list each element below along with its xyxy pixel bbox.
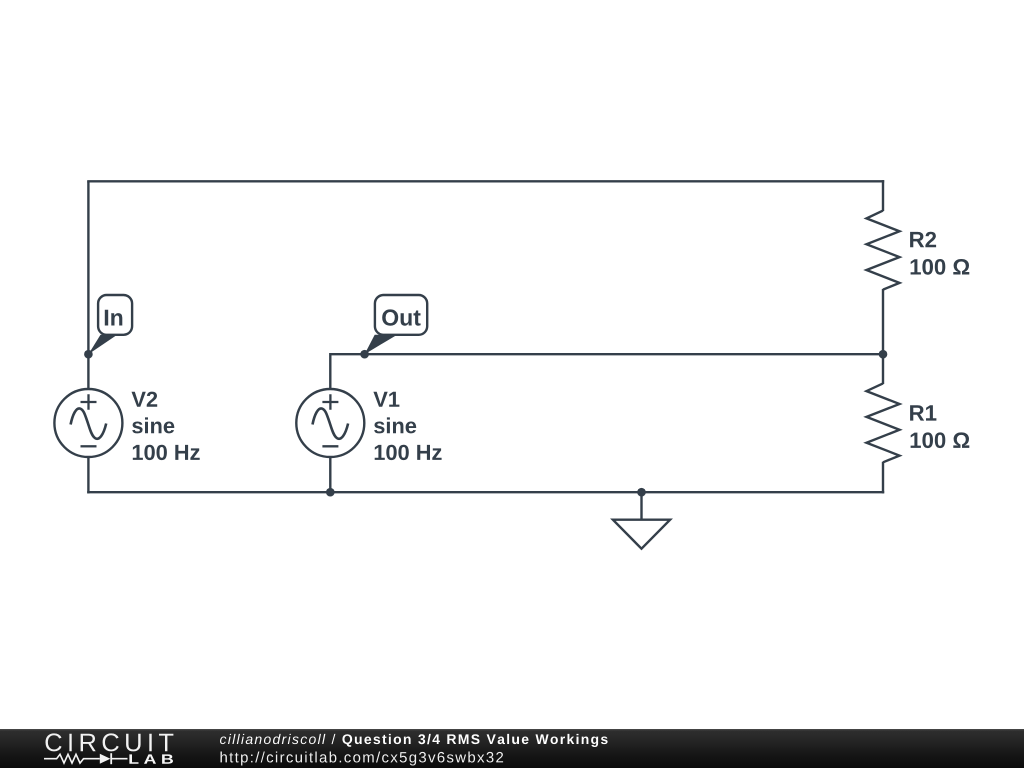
wire R2 top lead (882, 180, 884, 211)
wire R2 bottom lead (882, 289, 884, 355)
wire Out rail (330, 353, 883, 355)
label R2 value (910, 232, 969, 275)
voltage source V2 (54, 389, 122, 457)
ground (613, 492, 670, 549)
logo LAB word (129, 754, 173, 763)
wire R1 bottom lead (882, 462, 884, 494)
junction dot ground (637, 488, 646, 497)
node In text (105, 310, 123, 326)
wire V2 bottom lead (87, 456, 89, 493)
label V1 value (373, 392, 441, 460)
resistor R1 (867, 383, 900, 462)
wire top rail (87, 180, 884, 182)
junction dot node In (84, 350, 93, 359)
logo CIRCUIT word (46, 733, 174, 751)
wire left vertical (In branch) (87, 181, 89, 390)
wire bottom rail (87, 491, 884, 493)
label R1 value (910, 405, 969, 448)
logo schematic line (resistor + diode) (44, 753, 128, 764)
voltage source V1 (296, 389, 364, 457)
footer line 2: url (221, 752, 504, 766)
label V2 value (132, 392, 200, 461)
junction dot node Out (360, 350, 369, 359)
wire V1 bottom lead (329, 456, 331, 493)
junction dot R1/R2 (879, 350, 888, 359)
wire V1 top lead (329, 353, 331, 390)
footer line 1: user / title (220, 734, 608, 747)
node In flag (88, 295, 132, 354)
logo diode triangle (100, 754, 111, 764)
footer bar (0, 729, 1024, 768)
resistor R2 (867, 211, 900, 290)
wire R1 top lead (882, 353, 884, 384)
junction dot V1 bottom (326, 488, 335, 497)
node Out flag (365, 295, 428, 354)
node Out text (382, 309, 420, 325)
